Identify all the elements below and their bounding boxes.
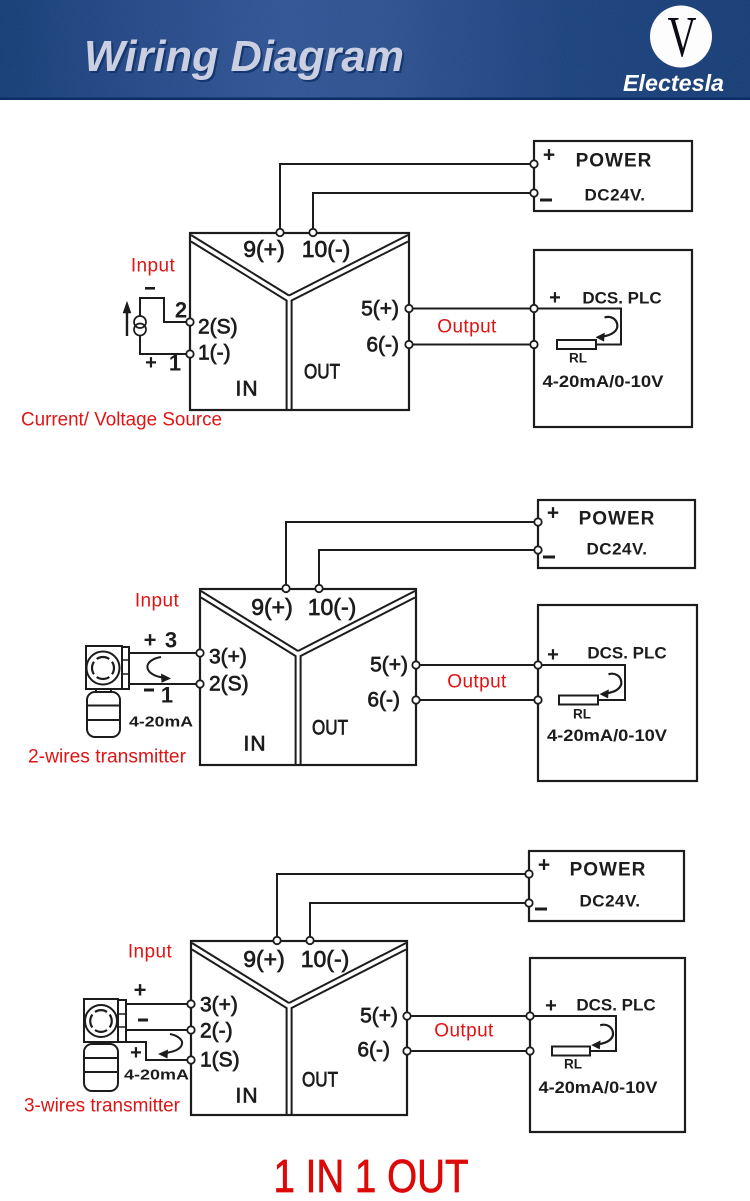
svg-text:2: 2 bbox=[175, 298, 187, 323]
svg-text:DCS. PLC: DCS. PLC bbox=[587, 644, 666, 663]
power - terminal bbox=[525, 899, 532, 906]
svg-text:DC24V.: DC24V. bbox=[585, 186, 646, 205]
svg-text:6(-): 6(-) bbox=[357, 1039, 390, 1062]
loop arrow A2 bbox=[147, 657, 163, 678]
terminal 1S bbox=[187, 1056, 194, 1063]
DCS - terminal bbox=[530, 341, 537, 348]
header band bbox=[0, 0, 750, 100]
terminal 2- bbox=[187, 1026, 194, 1033]
svg-text:9(+): 9(+) bbox=[243, 236, 285, 262]
wire 10(-) to power - bbox=[310, 903, 527, 939]
svg-text:4-20mA: 4-20mA bbox=[124, 1067, 189, 1084]
wire 9(+) to power + bbox=[286, 522, 536, 587]
terminal 10 bbox=[309, 229, 316, 236]
DCS box D3 bbox=[530, 958, 685, 1132]
svg-text:2(-): 2(-) bbox=[200, 1020, 233, 1043]
svg-text:+: + bbox=[547, 502, 559, 525]
terminal circles d3 bbox=[187, 870, 533, 1063]
transmitter wire + bbox=[126, 1003, 188, 1005]
terminal 1- bbox=[186, 350, 193, 357]
output wire 6(-) bbox=[409, 344, 534, 346]
svg-text:9(+): 9(+) bbox=[251, 594, 293, 620]
svg-text:6(-): 6(-) bbox=[366, 334, 399, 357]
svg-text:POWER: POWER bbox=[570, 860, 647, 881]
DCS + terminal bbox=[530, 305, 537, 312]
svg-text:DC24V.: DC24V. bbox=[580, 892, 641, 911]
svg-text:Output: Output bbox=[437, 317, 497, 338]
svg-text:+: + bbox=[545, 995, 557, 1017]
isolator block U3 bbox=[191, 941, 407, 1115]
svg-text:Output: Output bbox=[434, 1021, 494, 1042]
DCS - terminal bbox=[526, 1047, 533, 1054]
power box P3 bbox=[529, 851, 684, 921]
Y divider right outer bbox=[298, 591, 415, 651]
DCS box D1 bbox=[534, 250, 692, 427]
svg-text:DCS. PLC: DCS. PLC bbox=[582, 289, 661, 308]
neck bbox=[94, 1042, 109, 1044]
current source wire top bbox=[140, 298, 187, 322]
terminal 5+ block bbox=[405, 305, 412, 312]
svg-text:1: 1 bbox=[161, 683, 173, 708]
svg-text:RL: RL bbox=[564, 1057, 582, 1072]
power - sign bbox=[543, 556, 555, 559]
svg-text:IN: IN bbox=[236, 1085, 259, 1108]
Y divider right inner bbox=[301, 598, 415, 766]
svg-text:10(-): 10(-) bbox=[302, 236, 351, 262]
RL loop wire bbox=[530, 1016, 616, 1051]
Y divider left inner bbox=[201, 598, 296, 766]
terminal column bbox=[118, 1000, 126, 1042]
svg-text:2(S): 2(S) bbox=[198, 316, 238, 339]
svg-text:+: + bbox=[547, 644, 559, 666]
3-wire transmitter T3 bbox=[84, 999, 126, 1091]
DCS loop arrow d3 bbox=[599, 1025, 613, 1044]
svg-text:IN: IN bbox=[244, 733, 267, 756]
svg-text:3-wires transmitter: 3-wires transmitter bbox=[24, 1096, 181, 1117]
loop arrow A3 bbox=[165, 1034, 182, 1053]
head bbox=[86, 646, 122, 689]
output wire 6(-) bbox=[416, 699, 538, 701]
DCS + terminal bbox=[526, 1012, 533, 1019]
output wire 5(+) bbox=[407, 1015, 530, 1017]
svg-text:3(+): 3(+) bbox=[200, 994, 238, 1017]
terminal 9 bbox=[276, 229, 283, 236]
svg-text:1(S): 1(S) bbox=[200, 1049, 240, 1072]
transmitter wire bottom bbox=[126, 1042, 188, 1060]
Y divider left outer bbox=[191, 235, 289, 296]
terminal 3+ bbox=[187, 1000, 194, 1007]
svg-text:+: + bbox=[144, 628, 157, 653]
svg-text:Input: Input bbox=[135, 591, 180, 612]
lens circle bbox=[87, 652, 120, 685]
svg-text:4-20mA/0-10V: 4-20mA/0-10V bbox=[547, 727, 667, 745]
DCS + terminal bbox=[534, 661, 541, 668]
labels d2 bbox=[129, 502, 667, 756]
RL loop wire bbox=[534, 309, 621, 345]
svg-text:1 IN 1 OUT: 1 IN 1 OUT bbox=[274, 1150, 469, 1201]
svg-text:Wiring Diagram: Wiring Diagram bbox=[84, 32, 404, 81]
svg-text:Input: Input bbox=[128, 942, 173, 963]
DCS - terminal bbox=[534, 696, 541, 703]
terminal 10 bbox=[315, 585, 322, 592]
terminal 6- block bbox=[405, 341, 412, 348]
power box P2 bbox=[538, 500, 695, 568]
body bbox=[84, 1044, 118, 1091]
svg-text:6(-): 6(-) bbox=[367, 689, 400, 712]
power - terminal bbox=[530, 189, 537, 196]
svg-text:1(-): 1(-) bbox=[198, 342, 231, 365]
RL loop wire bbox=[538, 665, 625, 700]
Y divider left inner bbox=[192, 950, 287, 1116]
Y divider left inner bbox=[191, 242, 287, 411]
svg-text:+: + bbox=[130, 1042, 142, 1064]
power + terminal bbox=[525, 870, 532, 877]
svg-text:4-20mA/0-10V: 4-20mA/0-10V bbox=[543, 373, 664, 391]
resistor RL1 bbox=[557, 340, 596, 349]
power + terminal bbox=[530, 160, 537, 167]
power - sign bbox=[540, 199, 552, 202]
isolator block U2 bbox=[200, 589, 416, 765]
DCS loop arrow A1 bbox=[604, 317, 618, 336]
source arrow bbox=[123, 302, 131, 337]
terminal 6- block bbox=[403, 1047, 410, 1054]
svg-text:DC24V.: DC24V. bbox=[587, 540, 648, 559]
Y divider left outer bbox=[201, 591, 298, 651]
power - terminal bbox=[534, 546, 541, 553]
terminal 5+ block bbox=[412, 661, 419, 668]
svg-text:IN: IN bbox=[236, 378, 259, 401]
svg-text:POWER: POWER bbox=[579, 509, 656, 530]
svg-text:3(+): 3(+) bbox=[209, 646, 247, 669]
terminal 10 bbox=[306, 937, 313, 944]
labels d3 bbox=[124, 854, 658, 1108]
transmitter wire + bbox=[129, 652, 197, 654]
svg-text:RL: RL bbox=[573, 707, 591, 722]
isolator block U1 bbox=[190, 233, 409, 410]
labels d1 bbox=[145, 144, 664, 401]
wire 10(-) to power - bbox=[319, 550, 536, 587]
svg-text:OUT: OUT bbox=[312, 717, 348, 740]
svg-text:RL: RL bbox=[569, 351, 587, 366]
terminal 2S bbox=[196, 680, 203, 687]
terminal 9 bbox=[282, 585, 289, 592]
neck bbox=[96, 689, 111, 692]
Y divider right outer bbox=[289, 235, 408, 296]
svg-text:5(+): 5(+) bbox=[361, 298, 399, 321]
svg-text:+: + bbox=[134, 978, 147, 1003]
Y divider right outer bbox=[289, 943, 406, 1003]
output wire 5(+) bbox=[416, 664, 538, 666]
svg-text:+: + bbox=[543, 144, 555, 167]
svg-text:5(+): 5(+) bbox=[370, 654, 408, 677]
terminal 5+ block bbox=[403, 1012, 410, 1019]
svg-text:OUT: OUT bbox=[304, 361, 340, 384]
lens circle bbox=[85, 1005, 117, 1037]
svg-text:4-20mA: 4-20mA bbox=[129, 714, 193, 731]
current source wire bottom bbox=[140, 336, 187, 354]
svg-text:POWER: POWER bbox=[576, 151, 653, 172]
svg-text:2-wires transmitter: 2-wires transmitter bbox=[28, 747, 187, 768]
power - sign bbox=[535, 908, 547, 911]
svg-text:Electesla: Electesla bbox=[623, 70, 724, 96]
transmitter wire - bbox=[126, 1029, 188, 1031]
power + terminal bbox=[534, 518, 541, 525]
svg-text:DCS. PLC: DCS. PLC bbox=[576, 996, 655, 1015]
DCS box D2 bbox=[538, 605, 697, 781]
terminal 3+ bbox=[196, 649, 203, 656]
svg-text:+: + bbox=[549, 287, 561, 309]
resistor RL2 bbox=[559, 696, 598, 705]
svg-text:V: V bbox=[668, 4, 697, 69]
terminal 9 bbox=[273, 937, 280, 944]
2-wire transmitter T2 bbox=[86, 646, 129, 737]
terminal 2S bbox=[186, 318, 193, 325]
Y divider left outer bbox=[192, 943, 289, 1003]
Y divider right inner bbox=[292, 242, 408, 411]
wire label - bbox=[138, 1019, 148, 1022]
svg-text:2(S): 2(S) bbox=[209, 673, 249, 696]
svg-text:3: 3 bbox=[165, 628, 177, 653]
svg-text:Output: Output bbox=[447, 672, 507, 693]
terminal circles d2 bbox=[196, 518, 541, 703]
output wire 6(-) bbox=[407, 1050, 530, 1052]
body bbox=[87, 692, 120, 737]
current source S1 bbox=[134, 316, 146, 336]
svg-text:10(-): 10(-) bbox=[301, 946, 350, 972]
wire 9(+) to power + bbox=[277, 874, 527, 939]
svg-text:Input: Input bbox=[131, 256, 176, 277]
transmitter wire - bbox=[129, 683, 197, 685]
output wire 5(+) bbox=[409, 308, 534, 310]
svg-text:1: 1 bbox=[169, 351, 181, 376]
svg-text:9(+): 9(+) bbox=[243, 946, 285, 972]
logo circle bbox=[650, 6, 712, 68]
wire label - 1 bbox=[144, 689, 154, 692]
svg-text:+: + bbox=[538, 854, 550, 877]
svg-text:4-20mA/0-10V: 4-20mA/0-10V bbox=[539, 1079, 658, 1097]
source - sign bbox=[145, 287, 155, 290]
svg-text:+: + bbox=[145, 352, 157, 374]
DCS loop arrow d2 bbox=[608, 674, 622, 693]
resistor RL3 bbox=[552, 1047, 590, 1056]
svg-text:5(+): 5(+) bbox=[360, 1005, 398, 1028]
wire 10(-) to power - bbox=[313, 193, 532, 231]
wire 9(+) to power + bbox=[280, 164, 532, 231]
power box P1 bbox=[534, 141, 692, 211]
terminal column bbox=[122, 647, 129, 689]
svg-text:Current/ Voltage Source: Current/ Voltage Source bbox=[21, 410, 222, 431]
terminal circles d1 bbox=[186, 160, 537, 357]
svg-text:OUT: OUT bbox=[302, 1069, 338, 1092]
terminal 6- block bbox=[412, 696, 419, 703]
svg-text:10(-): 10(-) bbox=[308, 594, 357, 620]
Y divider right inner bbox=[292, 950, 406, 1116]
head bbox=[84, 999, 118, 1042]
